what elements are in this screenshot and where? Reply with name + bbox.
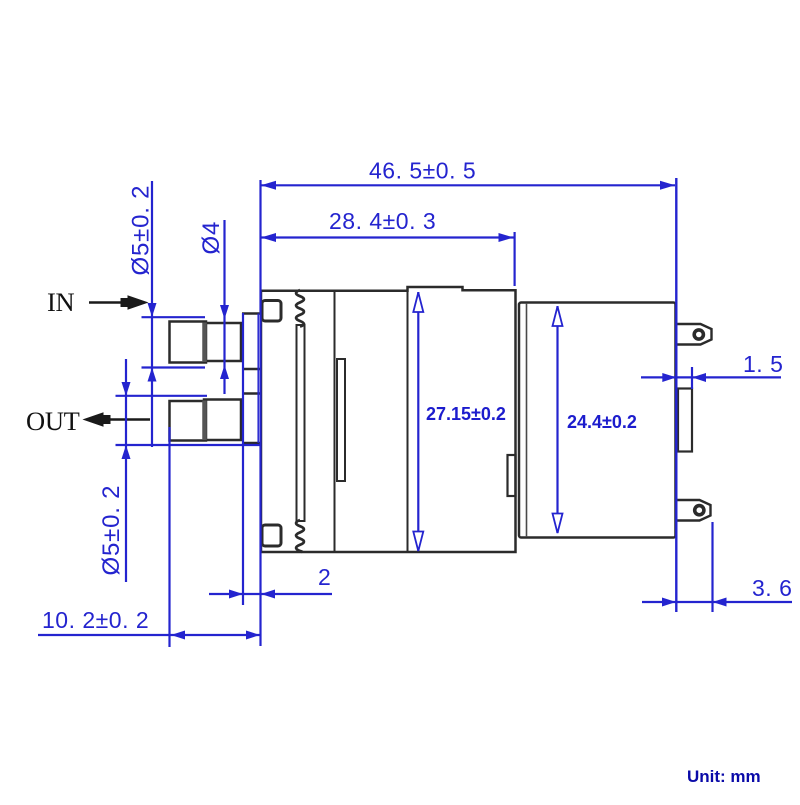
svg-text:27.15±0.2: 27.15±0.2 <box>426 404 506 424</box>
svg-text:2: 2 <box>318 564 331 590</box>
svg-text:Ø5±0. 2: Ø5±0. 2 <box>128 185 155 276</box>
svg-text:Unit: mm: Unit: mm <box>687 767 761 786</box>
svg-text:24.4±0.2: 24.4±0.2 <box>567 412 637 432</box>
svg-text:Ø5±0. 2: Ø5±0. 2 <box>98 485 125 576</box>
svg-text:3. 6: 3. 6 <box>752 575 792 601</box>
svg-text:46. 5±0. 5: 46. 5±0. 5 <box>369 158 476 184</box>
svg-text:IN: IN <box>47 287 75 317</box>
svg-text:28. 4±0. 3: 28. 4±0. 3 <box>329 208 436 234</box>
svg-text:10. 2±0. 2: 10. 2±0. 2 <box>42 607 149 633</box>
svg-text:1. 5: 1. 5 <box>743 351 783 377</box>
svg-text:OUT: OUT <box>26 406 80 436</box>
svg-text:Ø4: Ø4 <box>198 221 225 255</box>
